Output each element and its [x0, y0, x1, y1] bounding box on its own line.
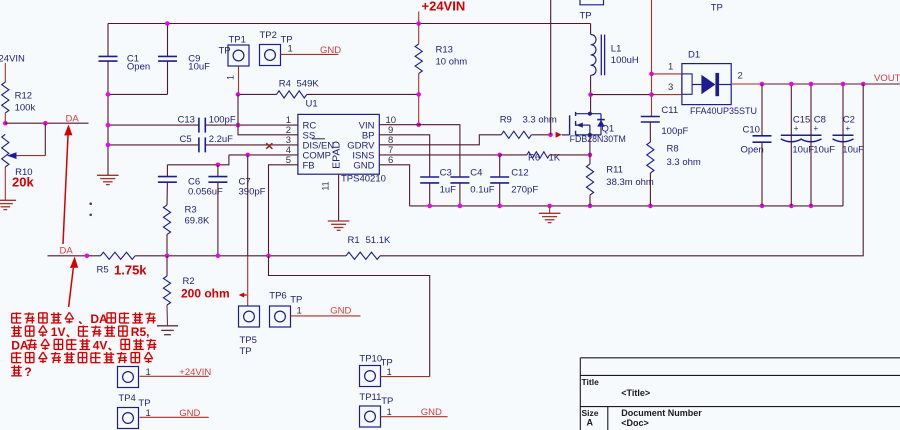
capacitor C1 [99, 56, 118, 61]
ground main rail [539, 206, 561, 223]
svg-text:TP6: TP6 [269, 291, 286, 302]
svg-text:R6: R6 [528, 153, 540, 164]
junction C7 top [216, 163, 221, 168]
wire DIS/EN pin3 [205, 144, 298, 146]
Q1 source bottom lead [576, 125, 601, 135]
svg-text:GND: GND [353, 161, 374, 172]
label R9 [500, 115, 557, 126]
wire C1 to ground [107, 61, 109, 175]
svg-text:R3: R3 [185, 205, 197, 216]
svg-text:38.3m ohm: 38.3m ohm [606, 177, 654, 188]
wire TP1 pin [226, 66, 239, 94]
svg-text:R4: R4 [279, 79, 291, 90]
wire DA rail right [380, 255, 863, 257]
testpoint TP10 [359, 354, 392, 387]
junction VIN node [416, 122, 421, 127]
wire wiper [15, 123, 45, 155]
wire TP4u pin to +24VIN [140, 367, 209, 378]
diode D1 box [682, 64, 731, 105]
svg-text:2: 2 [738, 71, 743, 82]
wire Q1 source down [589, 135, 591, 155]
net label +24VIN (TP) [179, 367, 211, 378]
junction TP1 node [236, 92, 241, 97]
resistor R11 [586, 155, 593, 206]
wire FB pin5 [269, 165, 298, 256]
label R5 [97, 263, 148, 278]
wire TP11 pin to GND [381, 407, 448, 418]
Q1 drain lead [576, 113, 601, 115]
svg-text:?: ? [24, 365, 31, 379]
wire BP pin9 to C3 [379, 135, 429, 177]
svg-text:200 ohm: 200 ohm [181, 287, 230, 301]
svg-text:R2: R2 [183, 276, 195, 287]
capacitor C5 [199, 137, 205, 152]
testpoint TP2 [260, 30, 293, 66]
X mark on pin3 wire [266, 143, 272, 149]
junction C3 gnd [427, 204, 432, 209]
resistor R3 [163, 205, 170, 235]
svg-text:1: 1 [226, 75, 236, 80]
Q1 body diode [597, 114, 605, 135]
U1 left pin numbers [286, 115, 291, 166]
red arrow DA lower [69, 257, 79, 308]
capacitor C12 branch [490, 155, 509, 206]
ground R2 [157, 326, 178, 335]
wire L1 bottom [590, 75, 592, 94]
svg-text:TP10: TP10 [359, 354, 382, 365]
svg-text:3.3 ohm: 3.3 ohm [523, 115, 557, 126]
junction R3/R2 on rail [165, 254, 170, 259]
resistor R13 [415, 44, 422, 73]
svg-text:270pF: 270pF [511, 185, 538, 196]
svg-text:GND: GND [421, 407, 442, 418]
svg-text:Open: Open [741, 145, 764, 156]
svg-text:24VIN: 24VIN [0, 54, 25, 65]
junction C12 top [497, 153, 502, 158]
vout rail [762, 83, 900, 85]
svg-text:3.3 ohm: 3.3 ohm [667, 157, 701, 168]
wire D1 feed vertical [651, 0, 653, 116]
wire TP10 pin [381, 367, 430, 378]
junction R12/R10 [3, 121, 8, 126]
svg-text:100pF: 100pF [209, 114, 236, 125]
wire ISNS pin7 [379, 154, 499, 156]
svg-text:R1: R1 [348, 235, 360, 246]
label R13 [436, 45, 468, 68]
resistor R2 [163, 256, 170, 326]
svg-text:DA: DA [11, 338, 29, 352]
capacitor C11 branch [641, 116, 660, 142]
label L1 [611, 44, 639, 67]
svg-text:1K: 1K [549, 153, 561, 164]
junction drain node [588, 92, 593, 97]
wire C4 to gnd rail [459, 183, 461, 206]
op-amp U1 box TPS40210 [298, 99, 386, 185]
wire R4 right to vin node [307, 93, 419, 95]
ground C1 branch [97, 175, 119, 184]
svg-text:10uF: 10uF [842, 145, 864, 156]
wire Q1 drain up [590, 95, 592, 114]
net label DA (rail) [60, 246, 74, 257]
svg-text:1: 1 [288, 44, 293, 55]
label R4 [279, 79, 320, 90]
svg-text:1.75k: 1.75k [114, 263, 147, 278]
svg-text:+24VIN: +24VIN [179, 367, 211, 378]
testpoint TP4 lower box [118, 408, 139, 429]
label TP4 [118, 393, 150, 409]
net label VOUT [874, 73, 900, 84]
svg-text:C4: C4 [470, 168, 482, 179]
label C11 [661, 105, 688, 137]
svg-text:<Doc>: <Doc> [621, 418, 649, 428]
svg-text:DA: DA [66, 113, 80, 124]
label C3 [440, 168, 457, 196]
capacitor C3 [420, 177, 439, 183]
svg-text:Title: Title [582, 377, 600, 387]
capacitor C13 [199, 118, 205, 133]
wire R6 to Q1 source [550, 154, 590, 156]
svg-text:DA: DA [90, 312, 108, 326]
junction R11 gnd [588, 204, 593, 209]
svg-text:L1: L1 [611, 44, 622, 55]
junction gnd symbol [547, 204, 552, 209]
svg-text:R5: R5 [97, 265, 109, 276]
svg-text:Open: Open [127, 61, 150, 72]
wire R10 to ground [4, 167, 6, 200]
svg-text:C10: C10 [743, 125, 760, 136]
wire +24VIN to R13 [418, 24, 420, 45]
junction top rail / +24VIN [416, 21, 421, 26]
svg-text:549K: 549K [297, 79, 320, 90]
svg-text:1: 1 [146, 367, 151, 378]
svg-text:TP: TP [381, 396, 393, 407]
title block text [582, 377, 703, 428]
wire FB loop to TP10 [269, 256, 430, 377]
svg-text:1V: 1V [51, 325, 66, 339]
svg-text:TP5: TP5 [240, 335, 257, 346]
red arrow at Q1 gate [556, 132, 562, 138]
inductor L1 [591, 35, 605, 76]
label C15 [792, 115, 814, 156]
wire COMP to TP5 [247, 155, 249, 306]
red left arrow after 200ohm [239, 293, 247, 298]
wire D1 pin1 [652, 62, 682, 74]
svg-text:390pF: 390pF [239, 187, 266, 198]
svg-text:TPS40210: TPS40210 [341, 174, 386, 185]
junction C15 gnd [789, 204, 794, 209]
resistor R4 [277, 91, 307, 98]
svg-text:+: + [794, 124, 799, 133]
junction C8 gnd [809, 204, 814, 209]
wire GDRV pin8 step [379, 135, 501, 145]
wire gate node up to TP [550, 0, 552, 135]
junction C11 gnd [648, 204, 653, 209]
wire C1 branch top [107, 24, 109, 57]
wire C7 to DA rail [217, 182, 219, 256]
wire C6 to R3 [166, 182, 168, 205]
svg-text:69.8K: 69.8K [185, 216, 210, 227]
potentiometer R10 wiper arrow [7, 152, 17, 159]
svg-text:D1: D1 [688, 50, 700, 61]
svg-text:R13: R13 [436, 45, 453, 56]
svg-text:A: A [587, 418, 594, 428]
label C7 [239, 177, 266, 198]
wire R13 to VIN node [418, 73, 420, 124]
svg-text:+: + [814, 124, 819, 133]
wire EPAD pin11 [321, 174, 339, 220]
transistor Q1 gate bar [562, 115, 570, 135]
wire TP2 pin to GND [281, 44, 339, 55]
junction C4 gnd [458, 204, 463, 209]
testpoint TP1 [219, 35, 250, 67]
svg-text:1: 1 [387, 367, 392, 378]
capacitor C2 branch [833, 82, 854, 206]
svg-text:1: 1 [297, 306, 302, 317]
svg-text:GND: GND [179, 408, 200, 419]
net label GND (TP6) [330, 306, 351, 317]
junction C1 mid rail [106, 92, 111, 97]
svg-text:TP4: TP4 [118, 393, 135, 404]
capacitor C10 [753, 84, 772, 206]
wire TP4l pin to GND [140, 408, 209, 419]
capacitor C9 [158, 56, 177, 61]
inductor L1 top corner [590, 24, 592, 35]
wire DA stub [5, 122, 88, 124]
svg-text:FB: FB [303, 161, 315, 172]
red annotation chinese text [11, 312, 156, 379]
svg-text:C13: C13 [178, 114, 195, 125]
wire VIN to C4 [419, 125, 460, 177]
junction R4/R13 node [416, 92, 421, 97]
wire D1 pin3 [652, 82, 682, 95]
wire R3 to DA rail [166, 235, 168, 256]
wire vout feedback down [862, 84, 864, 256]
junction Q1 source node [588, 153, 593, 158]
svg-text:TP: TP [580, 11, 592, 22]
svg-text:2.2uF: 2.2uF [209, 134, 233, 145]
testpoint TP11 [359, 392, 393, 427]
label C2 [842, 115, 864, 156]
svg-text:4V: 4V [93, 338, 108, 352]
svg-text:Document Number: Document Number [621, 408, 702, 418]
junction C5 on C1 branch [106, 143, 111, 148]
svg-text:1: 1 [146, 408, 151, 419]
wire VIN pin10 [379, 124, 418, 126]
junction C10 gnd [760, 204, 765, 209]
svg-text:FFA40UP35STU: FFA40UP35STU [690, 106, 757, 116]
wire DA rail left [48, 255, 101, 257]
svg-text:<Title>: <Title> [621, 388, 650, 398]
svg-text:+24VIN: +24VIN [422, 0, 466, 14]
junction C10 top [760, 82, 765, 87]
label C10 [741, 125, 764, 156]
label R2 [181, 276, 230, 301]
svg-text:TP: TP [711, 3, 723, 14]
wire DA rail mid [135, 255, 346, 257]
wire ISNS to R6 [500, 154, 527, 156]
resistor R12 [2, 82, 9, 113]
svg-text:20k: 20k [12, 174, 34, 189]
wire C13 left [108, 124, 199, 126]
resistor R5 [101, 252, 136, 259]
svg-text:GND: GND [320, 45, 341, 56]
label R11 [606, 165, 654, 189]
testpoint TP5 [239, 306, 260, 357]
svg-text:GND: GND [330, 306, 351, 317]
wire C3 to gnd rail [429, 183, 431, 206]
label C8 [813, 115, 835, 156]
svg-text:C11: C11 [661, 105, 678, 116]
svg-text:1: 1 [668, 62, 673, 73]
capacitor C6 [158, 177, 177, 183]
label C13 [178, 114, 236, 125]
junction C12 gnd [497, 204, 502, 209]
svg-text:R11: R11 [606, 165, 623, 176]
testpoint TP4 upper box [118, 367, 139, 388]
wire R4 node to SS [238, 94, 298, 134]
svg-text:TP11: TP11 [359, 392, 381, 403]
svg-text:TP: TP [219, 46, 231, 57]
net label 24VIN top left [0, 54, 25, 65]
net label GND (TP11) [421, 407, 442, 418]
wire RC pin1 [205, 124, 298, 126]
wire C7 top stub [217, 165, 219, 177]
capacitor C15 branch [781, 82, 802, 206]
capacitor C7 [208, 177, 227, 183]
label R1 [348, 235, 391, 246]
junction FB on rail [266, 254, 271, 259]
wire C5 left [108, 144, 199, 146]
svg-text:R12: R12 [15, 91, 32, 102]
svg-text:C12: C12 [511, 168, 528, 179]
svg-text:11: 11 [321, 181, 331, 190]
wire top rail +24VIN node [108, 23, 591, 25]
label R12 [15, 91, 36, 114]
svg-text:C5: C5 [180, 134, 192, 145]
wire GND pin6 to rail [379, 165, 409, 206]
ground R10 [0, 200, 16, 209]
testpoint TP fragment top [580, 0, 604, 22]
junction C13 on C1 branch [106, 123, 111, 128]
potentiometer R10 [2, 134, 9, 167]
U1 EPAD label [331, 141, 343, 169]
net label GND (TP4) [179, 408, 200, 419]
svg-text:TP: TP [290, 295, 302, 306]
svg-text:1uF: 1uF [440, 185, 457, 196]
net label GND (TP2) [320, 45, 341, 56]
U1 right pin names [347, 121, 375, 172]
label R6 1K [528, 153, 561, 164]
label C4 [470, 168, 494, 196]
svg-text:TP: TP [240, 346, 252, 357]
wire C9 branch top [167, 24, 169, 57]
svg-text:R9: R9 [500, 115, 512, 126]
resistor R8 [647, 142, 654, 206]
svg-text:1: 1 [387, 407, 392, 418]
Q1 channel dashes [575, 112, 577, 136]
label Q1 [570, 124, 626, 144]
label TP top right [711, 3, 723, 14]
wire COMP step to C6/C7 [167, 155, 229, 165]
svg-text:3: 3 [668, 82, 673, 93]
svg-text:DA: DA [60, 246, 74, 257]
wire D1 pin2 out [731, 71, 762, 85]
label C12 [511, 168, 538, 196]
capacitor C4 [450, 177, 469, 183]
junction COMP/TP5 [245, 153, 250, 158]
junction C7 on rail [216, 254, 221, 259]
label R8 [667, 144, 701, 169]
label C5 [180, 134, 234, 145]
svg-text:C3: C3 [440, 168, 452, 179]
wire COMP pin4 [229, 154, 298, 156]
svg-text:U1: U1 [306, 99, 318, 110]
resistor R6 [527, 152, 550, 158]
Q1 internal dots [588, 112, 592, 137]
gnd rail [410, 205, 843, 207]
svg-text:51.1K: 51.1K [366, 235, 391, 246]
svg-text:FDB28N30TM: FDB28N30TM [570, 134, 626, 144]
junction top rail / C9 [165, 21, 170, 26]
testpoint TP6 [269, 291, 302, 328]
title block frame [580, 358, 900, 430]
label R3 [185, 205, 210, 227]
svg-text:0.1uF: 0.1uF [470, 185, 494, 196]
wire drain node to D1 feed [591, 94, 652, 96]
junction RC/R4 vertical [236, 123, 241, 128]
svg-text:100pF: 100pF [661, 126, 688, 137]
svg-text:Size: Size [582, 408, 599, 418]
svg-text:+: + [846, 124, 851, 133]
net label DA (top) [66, 113, 80, 124]
power label +24VIN [419, 0, 466, 24]
U1 right pin numbers [386, 115, 397, 166]
svg-text:TP1: TP1 [229, 35, 246, 46]
junction gate node [548, 133, 553, 138]
label C1 [127, 53, 150, 72]
Q1 source arrow [576, 123, 590, 128]
red arrow DA upper [63, 125, 72, 245]
svg-text:10uF: 10uF [188, 61, 210, 72]
svg-text:10uF: 10uF [813, 145, 835, 156]
junction vout feedback [861, 82, 866, 87]
wire TP1 node to R4 [238, 93, 277, 95]
label C6 [188, 177, 223, 198]
svg-text:R5,: R5, [131, 325, 150, 339]
wire 24VIN down [4, 63, 6, 82]
junction D1 pin1 node [649, 72, 654, 77]
wire R12 to DA node [4, 113, 6, 123]
junction D1 pin3 node [649, 92, 654, 97]
label D1 [688, 50, 757, 117]
svg-text:TP2: TP2 [260, 30, 277, 41]
svg-text:100k: 100k [15, 103, 36, 114]
capacitor C8 branch [801, 82, 822, 206]
ground EPAD [328, 221, 350, 230]
label C9 [188, 53, 210, 72]
wire C1 to C9 bottom link [108, 93, 168, 95]
label R10 [12, 167, 34, 189]
junction R5 left [85, 254, 90, 259]
wire R9 to gate node [531, 134, 550, 136]
svg-text:VOUT: VOUT [874, 73, 900, 84]
junction wiper tap [43, 121, 48, 126]
diode D1 symbol [692, 73, 731, 96]
svg-text:10 ohm: 10 ohm [436, 57, 468, 68]
U1 left pin names [303, 121, 335, 172]
resistor R1 [346, 252, 380, 259]
svg-text:EPAD: EPAD [331, 141, 343, 169]
